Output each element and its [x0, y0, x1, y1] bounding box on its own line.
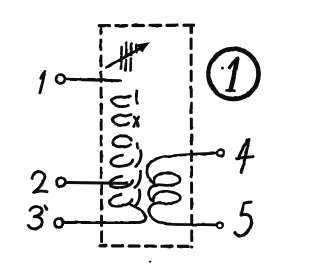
terminal pin 3 wire: [65, 221, 136, 224]
pin label 3: [29, 206, 47, 229]
terminal pin 1 wire: [66, 79, 120, 80]
inductor L1 primary winding (left coil, 6 turns): [109, 91, 145, 223]
inductor L1 secondary winding (right coil, 2 loop turns): [147, 154, 204, 224]
pin label 4: [237, 140, 254, 173]
terminal pin 1 circle: [56, 75, 65, 84]
pin label 5: [235, 202, 252, 236]
stray scan speck: [149, 261, 151, 263]
pin label 1: [40, 71, 46, 93]
adjustable core slug (hatch strokes): [121, 43, 136, 71]
terminal pin 2 circle: [57, 178, 66, 187]
terminal pin 5 circle: [217, 222, 223, 228]
terminal pin 4 wire: [192, 152, 216, 156]
terminal pin 2 wire: [67, 181, 127, 185]
terminal pin 4 circle: [217, 150, 224, 157]
terminal pin 3 circle: [55, 219, 64, 228]
assembly designator circled 1: [209, 49, 259, 99]
pin label 2: [32, 172, 47, 193]
shield screen (dashed enclosure box): [99, 25, 193, 247]
terminal pin 5 wire: [204, 223, 216, 226]
adjustment arrow: [107, 42, 151, 68]
